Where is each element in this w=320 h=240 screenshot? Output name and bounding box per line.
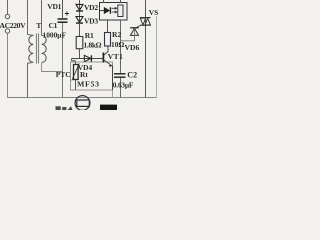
svg-text:PTC: PTC [56,70,71,79]
svg-text:VS: VS [149,8,158,17]
svg-text:AC220V: AC220V [0,21,26,30]
svg-text:VD2: VD2 [84,3,98,12]
svg-text:T: T [36,21,41,30]
svg-text:C1: C1 [49,21,58,30]
svg-text:R2: R2 [112,30,121,39]
svg-text:VD3: VD3 [84,16,98,25]
svg-text:0.63μF: 0.63μF [113,81,134,90]
svg-text:VT1: VT1 [108,52,123,61]
svg-text:MF53: MF53 [77,80,100,89]
svg-text:VD6: VD6 [125,43,140,52]
svg-text:VD1: VD1 [47,2,61,11]
svg-text:C2: C2 [127,71,137,80]
svg-text:1.8kΩ: 1.8kΩ [84,41,102,50]
svg-text:10Ω: 10Ω [111,40,124,49]
svg-text:R1: R1 [85,31,94,40]
svg-text:Rt: Rt [80,70,88,79]
svg-text:1000μF: 1000μF [43,31,67,40]
